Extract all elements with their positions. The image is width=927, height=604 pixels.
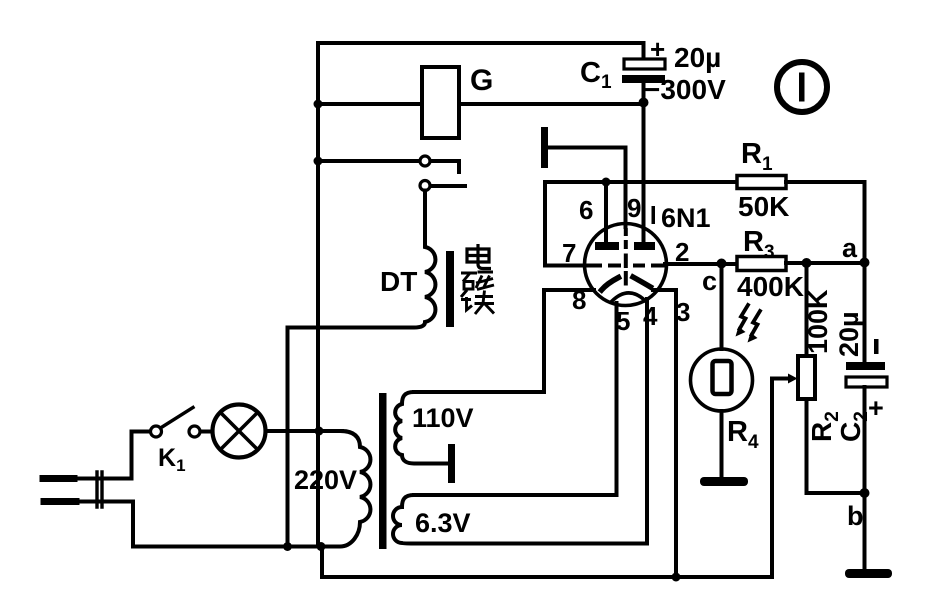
transformer primary winding 220V [323, 431, 370, 547]
svg-text:b: b [847, 501, 864, 531]
photoresistor R4 inner rect [713, 361, 732, 394]
ground bar b [845, 569, 892, 578]
grid bias T-bar electrode [541, 127, 548, 168]
wire pin5 to 6.3V winding top [414, 303, 617, 495]
tube right cathode arc [633, 277, 651, 287]
tube left cathode arc [602, 278, 619, 291]
svg-text:R3: R3 [743, 226, 775, 263]
node junction c [717, 259, 727, 269]
wire plug top [74, 477, 132, 481]
wire right bus C2 to ground [863, 387, 867, 569]
lamp circle [213, 405, 266, 458]
switch K1 left contact circle [151, 426, 162, 437]
wire pin6-pin7-R1 net [545, 180, 737, 184]
lamp X diagonal 1 [221, 413, 258, 450]
transformer core bar [379, 393, 387, 549]
capacitor C2 solid plate [846, 362, 885, 370]
badge circled 1 [777, 62, 827, 112]
tube heater dome arc [612, 293, 646, 302]
capacitor C1 top plate [624, 59, 665, 69]
svg-text:50K: 50K [738, 191, 789, 222]
svg-text:+: + [868, 393, 884, 423]
capacitor C2 hollow plate [846, 377, 887, 387]
tube left anode bar [595, 242, 619, 250]
potentiometer R2 body [798, 356, 815, 399]
svg-text:G: G [470, 64, 493, 97]
resistor R3 body [737, 257, 786, 271]
svg-text:+: + [650, 34, 665, 64]
label dian (electric) glyph [467, 244, 491, 269]
label ci (magnet) glyph [461, 272, 494, 290]
svg-text:2: 2 [675, 237, 689, 267]
svg-text:110V: 110V [412, 403, 474, 433]
badge numeral 1 bar [799, 73, 805, 102]
wire pin8 to 110V winding [414, 290, 594, 392]
R4 light arrow 2 [752, 311, 761, 335]
svg-text:DT: DT [380, 266, 417, 297]
switch K1 lever [161, 408, 194, 429]
wire R4 top lead [720, 264, 724, 350]
wire R4 bottom lead [720, 411, 724, 477]
svg-text:5: 5 [616, 306, 630, 336]
wire R2 top lead [805, 263, 809, 356]
wire bus drop to bottom wire B [322, 547, 772, 578]
svg-text:100K: 100K [803, 289, 833, 354]
node junction R2 / right bus [860, 488, 870, 498]
wire relay armature L-stub [431, 161, 460, 172]
relay contact upper circle [420, 156, 430, 166]
svg-text:400K: 400K [737, 271, 804, 302]
wire relay coil left [318, 102, 422, 106]
wire right bus upper [863, 182, 867, 263]
plug connector double bars [97, 472, 102, 507]
svg-text:6: 6 [579, 195, 593, 225]
resistor R1 body [737, 176, 786, 189]
wire pin7 horizontal [545, 264, 586, 268]
svg-text:c: c [702, 266, 717, 296]
mains plug bottom prong [44, 498, 76, 505]
label pin1 tick [652, 206, 656, 224]
wire lamp to transformer primary [266, 429, 343, 433]
wire pin2 to node c and R3 [665, 262, 737, 266]
tube right anode bar [634, 242, 655, 250]
node junction C1 / relay wire / pin9 lead [639, 98, 649, 108]
svg-text:C1: C1 [580, 57, 612, 93]
node junction left-bus / contact wire [314, 157, 323, 166]
wire plug to switch riser [132, 432, 151, 479]
svg-text:K1: K1 [158, 444, 186, 475]
svg-text:9: 9 [627, 193, 641, 223]
svg-text:a: a [842, 233, 858, 263]
node junction pin3 / bottom wire B [672, 573, 681, 582]
node junction left-bus / lamp wire [315, 427, 324, 436]
switch K1 right contact circle [189, 426, 200, 437]
svg-text:220V: 220V [294, 465, 357, 495]
svg-text:−300V: −300V [644, 74, 726, 105]
wire pin4 lead [645, 299, 649, 544]
photoresistor R4 circle [691, 349, 753, 411]
svg-text:4: 4 [643, 301, 658, 331]
svg-text:8: 8 [572, 285, 586, 315]
wire R3 to node a [786, 261, 865, 265]
wire relay contact lower stub [431, 184, 466, 188]
svg-text:20µ: 20µ [674, 42, 721, 73]
transformer 6.3V secondary winding [393, 495, 647, 544]
wire right bus a to C2 [863, 263, 867, 363]
svg-text:6.3V: 6.3V [415, 508, 471, 538]
wire pin9 anode lead [642, 103, 646, 243]
svg-text:7: 7 [562, 238, 576, 268]
node junction left-bus / bottom wire A [317, 542, 326, 551]
wire R1 to right bus [786, 180, 865, 184]
transformer 110V secondary winding [395, 392, 544, 464]
R2 wiper arrowhead [788, 374, 798, 384]
wire grid lead horizontal [548, 146, 626, 150]
node junction a [860, 258, 870, 268]
R4 light arrow 1 [740, 305, 749, 329]
wire switch to lamp [201, 430, 213, 434]
110V center-tap T-bar electrode [448, 444, 455, 483]
wire R2 bottom lead [807, 399, 865, 493]
wire R2 wiper riser [772, 379, 789, 578]
svg-text:3: 3 [676, 297, 690, 327]
wire top bus [318, 41, 644, 45]
wire grid lead vertical [624, 148, 628, 228]
wire relay coil right [459, 102, 644, 106]
node junction pin6 lead [602, 178, 611, 187]
svg-text:R1: R1 [741, 138, 773, 175]
R4 light arrowhead 1 [736, 327, 746, 337]
node junction R2 top [802, 258, 812, 268]
DT electromagnet core bar [446, 251, 454, 327]
label tie (iron) glyph [461, 290, 494, 314]
tube grid dashed vertical [624, 228, 628, 286]
mains plug top prong [43, 475, 74, 482]
wire relay contact upper [318, 159, 420, 163]
wire left bus [316, 43, 320, 547]
capacitor C1 lead bottom [642, 83, 646, 104]
lamp X diagonal 2 [221, 413, 258, 450]
svg-text:6N1: 6N1 [661, 203, 711, 233]
node junction DT-return / bottom wire A [283, 542, 292, 551]
C2 minus tick [874, 339, 879, 354]
wire plug bottom [76, 500, 133, 504]
ground bar R4 [700, 477, 748, 486]
svg-text:R4: R4 [727, 416, 759, 453]
wire DT coil lead + electromagnet coil DT [288, 191, 436, 547]
capacitor C1 bottom plate [622, 75, 665, 83]
R4 light arrowhead 2 [748, 333, 758, 343]
relay contact lower circle [420, 181, 430, 191]
svg-text:20µ: 20µ [834, 311, 864, 357]
relay coil G box [422, 67, 459, 138]
wire pin8 riser from 110V [542, 290, 546, 392]
wire pin7 vertical [543, 182, 547, 266]
wire pin3 lead [653, 290, 676, 577]
wire pin6 anode lead [604, 182, 608, 243]
tube grid dashed horizontal [585, 264, 668, 268]
tube 6N1 envelope circle [585, 224, 667, 306]
wire plug riser to bottom wire A [133, 502, 323, 547]
node junction left-bus / relay wire [314, 100, 323, 109]
capacitor C1 lead top [642, 43, 646, 59]
